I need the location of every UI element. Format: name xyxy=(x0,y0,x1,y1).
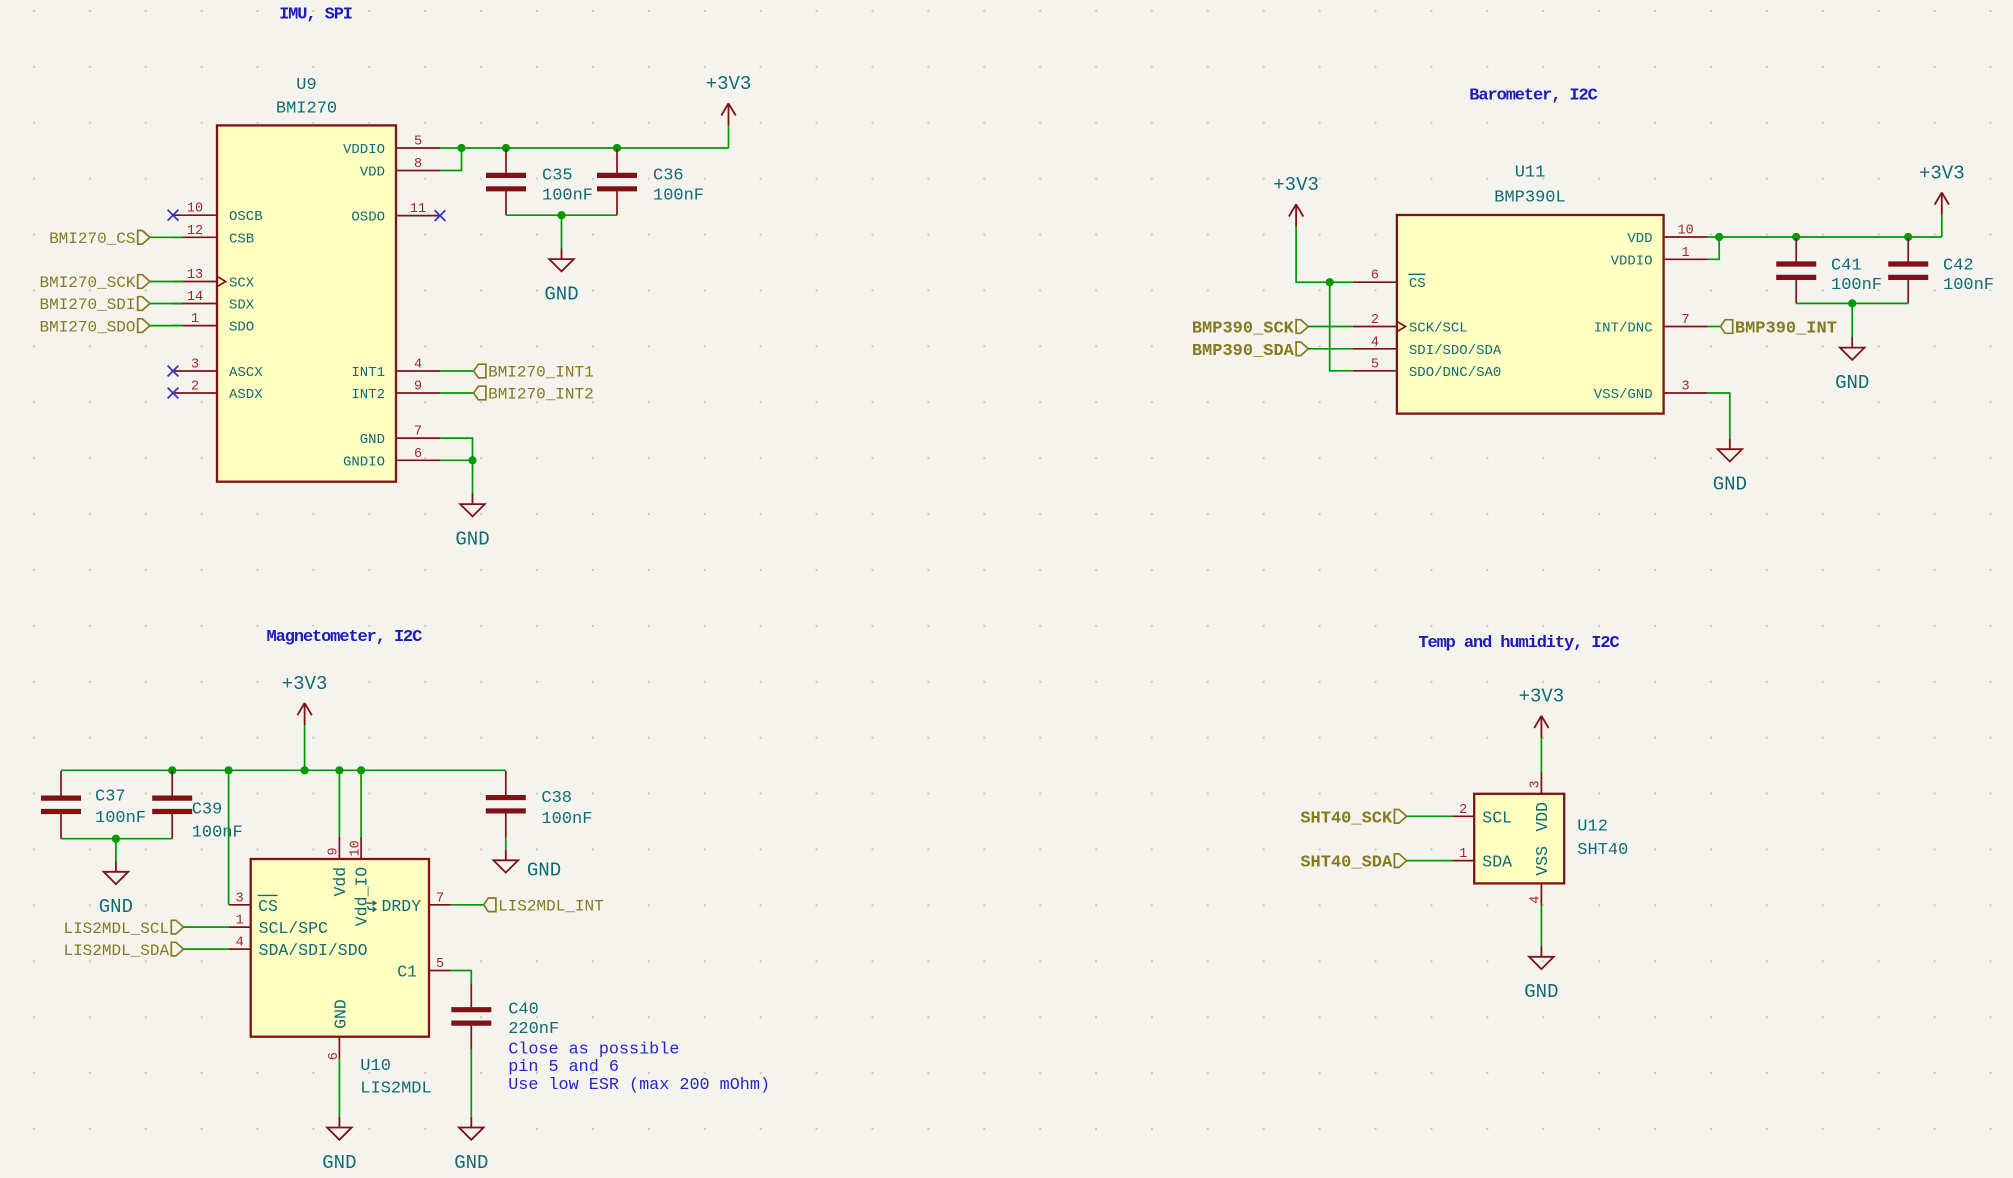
svg-text:5: 5 xyxy=(414,135,422,150)
svg-text:CS: CS xyxy=(1409,276,1426,292)
wire down to ground xyxy=(472,460,474,493)
U11 pin 10 VDD xyxy=(1627,224,1707,248)
U12 pin 4 VSS xyxy=(1529,846,1552,906)
wire INT1 xyxy=(440,370,474,372)
wire pin4 to ground xyxy=(1540,905,1542,946)
svg-text:13: 13 xyxy=(187,268,203,283)
junction C37/C39 gnd xyxy=(112,835,120,843)
svg-text:U10: U10 xyxy=(360,1057,391,1076)
svg-text:OSDO: OSDO xyxy=(351,210,385,226)
wire CS branch down xyxy=(1330,282,1353,371)
svg-text:GND: GND xyxy=(455,529,489,551)
junction Vdd pin9 branch xyxy=(335,766,343,774)
svg-text:LIS2MDL_INT: LIS2MDL_INT xyxy=(498,898,604,916)
svg-text:100nF: 100nF xyxy=(95,809,146,828)
capacitor C41 xyxy=(1776,238,1882,303)
svg-text:SHT40_SCK: SHT40_SCK xyxy=(1300,809,1393,828)
svg-text:INT2: INT2 xyxy=(351,387,385,403)
wire BMI270_CS xyxy=(150,236,183,238)
svg-text:3: 3 xyxy=(1682,380,1690,395)
svg-text:+3V3: +3V3 xyxy=(282,673,328,695)
svg-text:BMP390_SDA: BMP390_SDA xyxy=(1192,342,1295,361)
svg-text:100nF: 100nF xyxy=(1831,276,1882,295)
ground GND under U11 xyxy=(1713,439,1747,496)
svg-text:VDDIO: VDDIO xyxy=(343,142,385,158)
svg-text:100nF: 100nF xyxy=(542,187,593,206)
svg-text:Temp and humidity, I2C: Temp and humidity, I2C xyxy=(1418,634,1619,653)
svg-text:U12: U12 xyxy=(1577,818,1608,837)
svg-text:C37: C37 xyxy=(95,788,126,807)
svg-text:LIS2MDL: LIS2MDL xyxy=(360,1079,431,1098)
junction C35 top xyxy=(502,144,510,152)
svg-text:GND: GND xyxy=(1713,474,1747,496)
U9 pin 6 GNDIO xyxy=(343,447,440,471)
wire +3V3 to pin3 xyxy=(1540,738,1542,773)
svg-text:CSB: CSB xyxy=(229,231,254,247)
U9 pin 2 ASDX xyxy=(168,380,264,404)
svg-text:1: 1 xyxy=(1682,246,1690,261)
svg-text:BMI270_SDI: BMI270_SDI xyxy=(39,296,135,314)
wire GNDIO pin6 xyxy=(440,459,473,461)
wire +3V3 stem to bus xyxy=(304,725,306,770)
junction GND/GNDIO xyxy=(468,456,476,464)
svg-text:4: 4 xyxy=(414,358,422,373)
capacitor C37 xyxy=(41,771,146,839)
svg-text:1: 1 xyxy=(236,914,244,929)
capacitor C40 xyxy=(451,983,559,1049)
U11 pin 7 INT/DNC xyxy=(1594,313,1708,337)
svg-text:INT/DNC: INT/DNC xyxy=(1594,321,1653,337)
svg-text:Vdd: Vdd xyxy=(331,867,350,897)
ground GND under C37/C39 xyxy=(99,861,133,918)
ground GND under U9 xyxy=(455,494,489,551)
junction C41 top xyxy=(1792,233,1800,241)
hier label BMI270_INT1 xyxy=(474,364,486,378)
U9 pin 3 ASCX xyxy=(168,358,264,382)
svg-text:GND: GND xyxy=(527,860,561,882)
wire to GND block1 xyxy=(561,215,563,248)
svg-text:CS: CS xyxy=(258,897,278,916)
svg-text:3: 3 xyxy=(191,358,199,373)
IC U12 SHT40 body xyxy=(1474,794,1564,884)
capacitor C36 xyxy=(597,149,704,215)
power +3V3 magnetometer xyxy=(282,673,328,725)
wire BMI270_SCK xyxy=(150,281,183,283)
junction C42 top xyxy=(1904,233,1912,241)
svg-text:BMP390_INT: BMP390_INT xyxy=(1735,320,1837,339)
svg-text:Barometer, I2C: Barometer, I2C xyxy=(1469,87,1597,106)
junction caps gnd xyxy=(1848,299,1856,307)
svg-text:8: 8 xyxy=(414,157,422,172)
svg-text:4: 4 xyxy=(1529,896,1544,904)
U9 pin 1 SDO xyxy=(173,312,254,336)
U9 pin 14 SDX xyxy=(173,290,255,314)
svg-text:Vdd_IO: Vdd_IO xyxy=(353,867,372,927)
svg-text:BMI270: BMI270 xyxy=(276,100,337,119)
svg-text:12: 12 xyxy=(187,224,203,239)
U9 pin 12 CSB xyxy=(173,224,254,248)
svg-text:C36: C36 xyxy=(653,167,684,186)
svg-text:OSCB: OSCB xyxy=(229,209,263,225)
wire BMI270_SDI xyxy=(150,303,183,305)
U10 pin 1 SCL/SPC xyxy=(229,914,328,939)
svg-text:GND: GND xyxy=(454,1152,488,1174)
wire VDDIO net xyxy=(440,147,729,149)
power +3V3 right of C42 xyxy=(1941,215,1943,237)
svg-text:U11: U11 xyxy=(1515,164,1546,183)
svg-text:SDO: SDO xyxy=(229,320,254,336)
U12 pin 2 SCL xyxy=(1452,803,1512,828)
svg-text:2: 2 xyxy=(191,380,199,395)
wire power bus xyxy=(61,769,506,771)
junction C39 top xyxy=(168,766,176,774)
wire down to ground C37/C39 xyxy=(115,839,117,862)
svg-text:U9: U9 xyxy=(296,76,316,95)
power +3V3 block1 xyxy=(728,126,730,149)
svg-text:5: 5 xyxy=(436,957,444,972)
svg-text:C39: C39 xyxy=(192,801,223,820)
junction VDD/VDDIO U11 xyxy=(1715,233,1723,241)
svg-text:100nF: 100nF xyxy=(653,187,704,206)
svg-text:4: 4 xyxy=(1371,335,1379,350)
svg-text:GND: GND xyxy=(360,432,385,448)
svg-text:BMI270_SCK: BMI270_SCK xyxy=(39,274,135,292)
U9 pin 8 VDD xyxy=(360,157,440,181)
svg-text:Close as possible: Close as possible xyxy=(508,1040,679,1059)
svg-text:DRDY: DRDY xyxy=(382,897,422,916)
junction VDD/VDDIO xyxy=(457,144,465,152)
wire VSS/GND xyxy=(1708,393,1730,439)
svg-text:7: 7 xyxy=(1682,313,1690,328)
U10 pin 4 SDA/SDI/SDO xyxy=(229,936,368,961)
svg-text:GND: GND xyxy=(331,999,350,1029)
wire C1 to C40 xyxy=(451,971,471,984)
svg-text:SDA/SDI/SDO: SDA/SDI/SDO xyxy=(259,941,368,960)
svg-text:10: 10 xyxy=(348,840,363,856)
svg-text:BMI270_INT1: BMI270_INT1 xyxy=(488,364,594,382)
svg-text:7: 7 xyxy=(414,425,422,440)
U9 pin 10 OSCB xyxy=(168,202,263,226)
svg-text:5: 5 xyxy=(1371,357,1379,372)
svg-text:14: 14 xyxy=(187,290,203,305)
svg-text:+3V3: +3V3 xyxy=(706,73,752,95)
capacitor C42 xyxy=(1888,238,1994,303)
svg-text:10: 10 xyxy=(187,202,203,217)
wire SHT40_SCK xyxy=(1407,815,1453,817)
svg-text:220nF: 220nF xyxy=(508,1020,559,1039)
U12 pin 3 VDD xyxy=(1529,772,1552,832)
U10 pin 7 DRDY xyxy=(367,891,452,916)
svg-text:100nF: 100nF xyxy=(541,810,592,829)
power +3V3 U12 xyxy=(1519,686,1565,738)
svg-text:VSS: VSS xyxy=(1533,846,1552,876)
wire VDDIO up xyxy=(1708,237,1720,259)
svg-text:GND: GND xyxy=(99,896,133,918)
svg-text:INT1: INT1 xyxy=(351,365,385,381)
svg-text:3: 3 xyxy=(1529,780,1544,788)
svg-text:C38: C38 xyxy=(541,789,572,808)
U10 pin 6 GND xyxy=(327,999,350,1060)
svg-text:10: 10 xyxy=(1677,224,1693,239)
U11 pin 2 SCK/SCL xyxy=(1353,313,1468,337)
U9 pin 4 INT1 xyxy=(351,358,440,382)
svg-text:100nF: 100nF xyxy=(192,824,243,843)
U11 pin 6 CS xyxy=(1353,269,1426,293)
svg-text:VDD: VDD xyxy=(1533,802,1552,832)
IC U10 LIS2MDL body xyxy=(251,859,429,1037)
wire C40 to ground xyxy=(470,1050,472,1117)
wire BMP390_SDA xyxy=(1308,348,1353,350)
svg-text:GND: GND xyxy=(1835,372,1869,394)
ground GND under C35/C36 xyxy=(544,249,578,306)
svg-text:SHT40_SDA: SHT40_SDA xyxy=(1300,854,1393,873)
U9 pin 13 SCX xyxy=(173,268,255,292)
junction Vdd_IO pin10 branch xyxy=(357,766,365,774)
svg-text:2: 2 xyxy=(1459,803,1467,818)
U9 pin 7 GND xyxy=(360,425,440,449)
junction +3V3 bus xyxy=(301,766,309,774)
svg-text:Magnetometer, I2C: Magnetometer, I2C xyxy=(267,628,423,647)
junction CS vertical xyxy=(225,766,233,774)
svg-text:Use low ESR (max 200 mOhm): Use low ESR (max 200 mOhm) xyxy=(508,1076,770,1095)
svg-text:C41: C41 xyxy=(1831,257,1862,276)
wire GND pin7 xyxy=(440,438,473,460)
svg-text:1: 1 xyxy=(1459,847,1467,862)
ground GND under C41/C42 xyxy=(1835,337,1869,394)
svg-text:BMI270_CS: BMI270_CS xyxy=(49,230,135,248)
wire CS vertical xyxy=(228,770,230,905)
U11 pin 1 VDDIO xyxy=(1611,246,1708,269)
wire INT2 xyxy=(440,392,474,394)
wire DRDY xyxy=(451,904,484,906)
svg-text:ASDX: ASDX xyxy=(229,387,263,403)
U10 pin 9 Vdd xyxy=(327,837,350,897)
svg-text:LIS2MDL_SCL: LIS2MDL_SCL xyxy=(63,920,169,938)
ground GND under C40 xyxy=(454,1117,488,1174)
wire C35-C36 bottoms xyxy=(506,214,617,216)
svg-text:SHT40: SHT40 xyxy=(1577,841,1628,860)
U10 pin 3 CS xyxy=(229,891,278,916)
wire BMP390_SCK xyxy=(1308,326,1353,328)
wire pin9 to bus xyxy=(338,770,340,837)
svg-text:SDA: SDA xyxy=(1482,853,1512,872)
svg-text:BMI270_SDO: BMI270_SDO xyxy=(39,318,135,336)
svg-text:2: 2 xyxy=(1371,313,1379,328)
U9 pin 5 VDDIO xyxy=(343,135,440,159)
wire LIS2MDL_SCL xyxy=(184,926,229,928)
svg-text:6: 6 xyxy=(1371,269,1379,284)
svg-text:VDDIO: VDDIO xyxy=(1611,253,1653,269)
junction CS branch xyxy=(1326,278,1334,286)
svg-text:11: 11 xyxy=(410,202,426,217)
ground GND under C38 xyxy=(494,850,562,882)
svg-text:GNDIO: GNDIO xyxy=(343,454,385,470)
wire C41-C42 bottoms xyxy=(1796,302,1908,304)
svg-text:SDI/SDO/SDA: SDI/SDO/SDA xyxy=(1409,343,1502,359)
ground GND under U12 xyxy=(1524,946,1558,1003)
svg-text:IMU, SPI: IMU, SPI xyxy=(279,6,352,25)
svg-text:GND: GND xyxy=(322,1152,356,1174)
svg-text:+3V3: +3V3 xyxy=(1519,686,1565,708)
svg-text:+3V3: +3V3 xyxy=(1273,174,1319,196)
svg-text:3: 3 xyxy=(236,891,244,906)
capacitor C38 xyxy=(486,771,593,838)
svg-text:BMI270_INT2: BMI270_INT2 xyxy=(488,386,594,404)
svg-text:pin 5 and 6: pin 5 and 6 xyxy=(508,1058,619,1077)
svg-text:9: 9 xyxy=(414,380,422,395)
IC U11 BMP390L body xyxy=(1397,215,1664,414)
wire C38 to ground xyxy=(505,838,507,850)
wire +3V3 to CS xyxy=(1296,226,1353,282)
svg-text:BMP390_SCK: BMP390_SCK xyxy=(1192,320,1295,339)
U10 pin 10 Vdd_IO xyxy=(348,837,371,926)
wire VDD to VDDIO net xyxy=(440,148,462,171)
U11 pin 3 VSS/GND xyxy=(1594,380,1708,404)
svg-text:VSS/GND: VSS/GND xyxy=(1594,387,1653,403)
svg-text:9: 9 xyxy=(327,847,342,855)
svg-text:SDO/DNC/SA0: SDO/DNC/SA0 xyxy=(1409,365,1501,381)
wire pin10 to bus xyxy=(360,770,362,837)
svg-text:BMP390L: BMP390L xyxy=(1494,189,1565,208)
hier label BMP390_INT xyxy=(1721,320,1733,334)
wire INT/DNC xyxy=(1708,326,1721,328)
U11 pin 4 SDI/SDO/SDA xyxy=(1353,335,1502,359)
svg-text:6: 6 xyxy=(414,447,422,462)
svg-text:4: 4 xyxy=(236,936,244,951)
svg-text:SCL: SCL xyxy=(1482,808,1512,827)
svg-text:7: 7 xyxy=(436,891,444,906)
wire down to ground C41/C42 xyxy=(1851,303,1853,337)
svg-text:C1: C1 xyxy=(397,963,417,982)
svg-text:+3V3: +3V3 xyxy=(1919,162,1965,184)
U10 pin 5 C1 xyxy=(397,957,451,982)
svg-text:VDD: VDD xyxy=(1627,231,1652,247)
U11 pin 5 SDO/DNC/SA0 xyxy=(1353,357,1501,381)
svg-text:C35: C35 xyxy=(542,167,573,186)
svg-text:C40: C40 xyxy=(508,1000,539,1019)
no-connect on U9 pin 11 OSDO xyxy=(435,210,446,221)
ground GND under U10 xyxy=(322,1117,356,1174)
hier label LIS2MDL_INT xyxy=(484,898,496,912)
svg-text:100nF: 100nF xyxy=(1943,276,1994,295)
wire VDD net right xyxy=(1708,236,1942,238)
U12 pin 1 SDA xyxy=(1452,847,1512,872)
svg-text:SCL/SPC: SCL/SPC xyxy=(259,919,328,938)
svg-text:SDX: SDX xyxy=(229,298,255,314)
capacitor C39 xyxy=(152,771,243,843)
power +3V3 left of U11 xyxy=(1273,174,1319,226)
svg-text:1: 1 xyxy=(191,312,199,327)
wire LIS2MDL_SDA xyxy=(184,948,229,950)
svg-text:LIS2MDL_SDA: LIS2MDL_SDA xyxy=(63,942,169,960)
svg-text:VDD: VDD xyxy=(360,165,385,181)
svg-text:SCX: SCX xyxy=(229,276,255,292)
hier label BMI270_INT2 xyxy=(474,386,486,400)
capacitor C35 xyxy=(486,149,593,215)
wire C37-C39 bottoms xyxy=(61,838,172,840)
junction C36 top xyxy=(613,144,621,152)
svg-text:GND: GND xyxy=(1524,981,1558,1003)
svg-text:SCK/SCL: SCK/SCL xyxy=(1409,321,1468,337)
wire SHT40_SDA xyxy=(1407,860,1453,862)
svg-text:ASCX: ASCX xyxy=(229,365,263,381)
wire pin6 to ground xyxy=(338,1059,340,1117)
IC U9 BMI270 body xyxy=(217,125,396,481)
junction cap gnd xyxy=(557,211,565,219)
U9 pin 11 OSDO xyxy=(351,202,440,226)
U9 pin 9 INT2 xyxy=(351,380,440,404)
wire BMI270_SDO xyxy=(150,325,183,327)
svg-text:GND: GND xyxy=(544,284,578,306)
svg-text:C42: C42 xyxy=(1943,257,1974,276)
